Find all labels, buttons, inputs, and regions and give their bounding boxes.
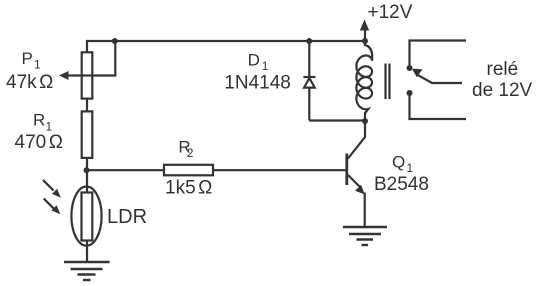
svg-text:1: 1: [407, 161, 414, 175]
svg-text:1: 1: [262, 59, 269, 73]
svg-text:1k5Ω: 1k5Ω: [165, 177, 212, 198]
svg-text:47kΩ: 47kΩ: [6, 72, 53, 93]
svg-text:+12V: +12V: [368, 2, 413, 23]
svg-text:B2548: B2548: [374, 174, 429, 195]
svg-text:1: 1: [34, 58, 41, 72]
svg-text:1: 1: [46, 120, 53, 134]
svg-text:D: D: [248, 51, 260, 70]
svg-text:de 12V: de 12V: [472, 80, 533, 101]
svg-text:R: R: [33, 111, 45, 130]
svg-text:2: 2: [187, 146, 194, 160]
svg-text:LDR: LDR: [107, 206, 147, 228]
svg-text:P: P: [22, 49, 33, 68]
svg-text:Q: Q: [392, 153, 405, 172]
svg-text:1N4148: 1N4148: [224, 73, 291, 94]
svg-text:470Ω: 470Ω: [15, 132, 63, 153]
svg-text:relé: relé: [487, 59, 519, 80]
